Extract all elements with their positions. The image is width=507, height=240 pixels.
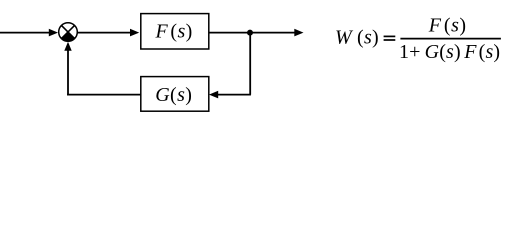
svg-text:W(s): W(s) (335, 27, 379, 49)
svg-text:F(s): F(s) (155, 21, 193, 43)
svg-text:1+G(s)F(s): 1+G(s)F(s) (399, 41, 500, 63)
svg-text:F(s): F(s) (428, 15, 467, 37)
svg-text:G(s): G(s) (155, 84, 192, 106)
